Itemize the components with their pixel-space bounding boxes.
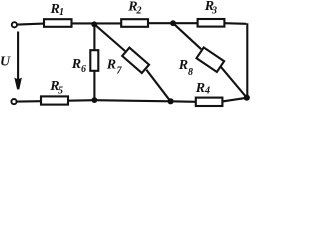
svg-text:R: R [195, 81, 205, 96]
svg-text:5: 5 [58, 86, 63, 97]
svg-text:7: 7 [117, 66, 123, 77]
svg-text:R: R [71, 57, 81, 72]
svg-text:8: 8 [188, 67, 193, 78]
svg-text:6: 6 [81, 64, 86, 75]
svg-text:4: 4 [204, 86, 210, 97]
svg-text:3: 3 [211, 6, 217, 17]
svg-text:R: R [106, 58, 116, 73]
svg-text:2: 2 [136, 6, 142, 17]
svg-text:1: 1 [59, 7, 64, 18]
svg-text:U: U [0, 55, 11, 70]
svg-text:R: R [178, 58, 188, 73]
